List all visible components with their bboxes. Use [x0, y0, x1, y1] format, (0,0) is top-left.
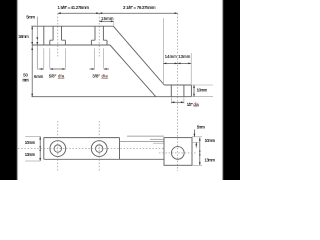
hole2 inner circle	[96, 145, 103, 152]
foot 10mm arrows	[193, 85, 195, 97]
left dim line 34mm/50mm	[31, 26, 33, 97]
arm projection line b	[150, 138, 164, 140]
svg-text:1/2": 1/2"	[187, 102, 194, 107]
plan foot bottom ext right	[192, 164, 202, 166]
bar bottom edge	[32, 44, 110, 46]
plan left dim shelf bottom	[25, 160, 40, 162]
dim line 15mm	[99, 20, 114, 22]
foot hole horizontal centerline	[159, 152, 197, 154]
arm projection line a	[127, 135, 164, 137]
extension line right end of top edge	[113, 22, 115, 26]
svg-text:dia: dia	[193, 102, 199, 107]
hole1 counterbore circle	[50, 141, 66, 157]
svg-text:6mm: 6mm	[34, 74, 44, 79]
mm highlight	[22, 78, 29, 82]
slot2 counterbore	[91, 40, 107, 45]
centerline right hole (long)	[177, 13, 179, 171]
svg-text:15mm: 15mm	[101, 16, 114, 21]
plan bar bottom edge	[44, 158, 164, 160]
plan right dim line	[199, 138, 201, 166]
svg-text:1 5/8" = 41.275mm: 1 5/8" = 41.275mm	[58, 5, 90, 10]
svg-text:3/8": 3/8"	[92, 74, 100, 79]
foot hole left line	[170, 85, 172, 97]
5mm annotation arrow	[193, 130, 195, 137]
foot 10mm ext shelf top	[192, 84, 213, 86]
svg-text:5mm: 5mm	[197, 125, 206, 130]
plan horizontal centerline	[18, 148, 165, 150]
plan foot top ext right	[192, 136, 202, 138]
arrows at slot2 centerline	[96, 12, 102, 14]
arrow down on left face line	[36, 37, 38, 45]
slot1 channel	[53, 26, 61, 40]
plan left dim arrows	[39, 137, 41, 162]
hole1 inner circle	[54, 145, 61, 152]
svg-text:10mm: 10mm	[197, 87, 208, 92]
extension lines below bar	[44, 48, 104, 68]
svg-text:13mm: 13mm	[178, 54, 191, 59]
svg-text:5/8": 5/8"	[49, 74, 57, 79]
arm projection line c	[120, 141, 165, 143]
extension line upper left of foot	[162, 18, 164, 85]
svg-text:13mm: 13mm	[205, 158, 216, 163]
half inch dia dim line	[171, 101, 184, 103]
5mm lower reference ext line	[192, 141, 199, 143]
5/8 dim arrows	[50, 68, 66, 70]
half inch dia arrows	[171, 101, 184, 103]
svg-text:3 1/8" = 79.375mm: 3 1/8" = 79.375mm	[123, 5, 156, 10]
inner diagonal	[110, 45, 156, 97]
6mm dim arrow	[39, 68, 44, 70]
top dimension line	[58, 12, 178, 14]
plan right dim arrows	[199, 138, 201, 166]
left black bar	[0, 0, 17, 182]
svg-text:10mm: 10mm	[25, 140, 36, 145]
extension line upper right of foot	[190, 53, 192, 85]
svg-text:dia: dia	[102, 74, 109, 79]
plan bar left edge	[43, 138, 45, 160]
plan bar right edge	[119, 138, 121, 160]
centerline slot1	[57, 13, 59, 57]
plan left dim shelf top	[25, 135, 40, 137]
half inch dia extension lines	[171, 98, 184, 104]
foot hole circle	[171, 147, 184, 160]
5/8 dim line	[50, 68, 66, 70]
slot1 step	[50, 39, 66, 41]
bottom line	[32, 96, 192, 98]
foot hole right line	[183, 85, 185, 97]
right black bar	[223, 0, 242, 182]
foot 10mm dim line	[193, 85, 195, 97]
arrow left at slot1 centerline	[58, 12, 61, 14]
plan foot outline	[164, 138, 192, 166]
slot2 channel	[95, 26, 103, 40]
arrow right at hole centerline	[175, 12, 178, 14]
foot top edge	[164, 84, 191, 86]
left dim arrows	[31, 26, 33, 97]
hole2 counterbore circle	[91, 141, 107, 157]
arrows 15mm	[99, 20, 114, 22]
left face plate line	[36, 17, 38, 70]
svg-text:dia: dia	[58, 74, 65, 79]
plan vertical centerline hole1	[57, 121, 59, 171]
5mm lower up arrow	[195, 142, 197, 147]
svg-text:10mm: 10mm	[205, 138, 216, 143]
arm projection line d	[153, 142, 164, 144]
svg-text:13mm: 13mm	[25, 152, 36, 157]
foot right edge	[190, 85, 192, 97]
plan left dim line	[39, 136, 41, 161]
slot1 counterbore	[50, 40, 66, 45]
foot 10mm ext shelf bottom	[192, 96, 213, 98]
svg-text:14mm: 14mm	[165, 54, 178, 59]
svg-text:5mm: 5mm	[26, 14, 35, 19]
slot2 step	[91, 39, 107, 41]
plan bar top edge	[44, 137, 120, 139]
bar top edge	[31, 25, 113, 27]
svg-text:34mm: 34mm	[19, 34, 30, 39]
plan vertical centerline hole2	[98, 121, 100, 171]
arrows 14/13 dim	[163, 63, 191, 65]
centerline slot2	[98, 13, 100, 57]
svg-text:mm: mm	[23, 77, 30, 82]
3/8 dim outside arrows	[90, 68, 110, 70]
dim line 14/13	[163, 62, 191, 64]
bar left edge	[43, 26, 45, 45]
outer diagonal	[113, 26, 164, 85]
